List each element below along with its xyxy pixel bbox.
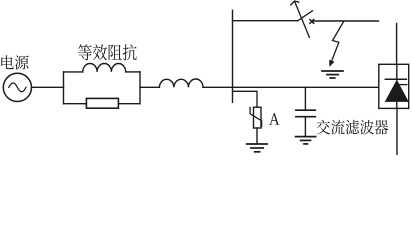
ground (arrester): [247, 144, 268, 152]
thyristor triangle: [385, 80, 409, 102]
AC source circle (电源): [3, 73, 31, 101]
main wire: inductor to converter box: [203, 86, 379, 88]
label: 交流滤波器 (AC filter): [316, 120, 388, 135]
top branch wire right: [126, 71, 140, 73]
lightning arrowhead: [329, 60, 334, 67]
arrester diagonal with tails: [250, 107, 262, 126]
arrester A body box: [254, 107, 262, 128]
lightning fault bolt: [332, 21, 345, 62]
wire: converter box bottom lead: [396, 108, 398, 155]
inductor L2 (series smoothing inductor): [159, 79, 203, 87]
label: A (arrester designator): [269, 113, 279, 124]
bus vertical line: [232, 10, 234, 102]
wire: capacitor to ground: [304, 117, 306, 136]
wire: arrester to ground: [256, 128, 258, 144]
AC source sine wave: [9, 83, 26, 92]
breaking arrow head: [291, 1, 299, 5]
capacitor C1 bottom plate: [296, 116, 315, 118]
top branch wire left: [64, 71, 83, 73]
wire: source to impedance block: [32, 86, 64, 88]
inductor L1 (top branch of equivalent impedance): [83, 64, 126, 72]
wire: triangle to box bottom: [396, 102, 398, 109]
wire: top branch down to converter box: [396, 24, 398, 65]
top branch wire (bus to disconnector): [233, 20, 298, 22]
bottom branch wire right: [118, 103, 140, 105]
breaking arrow shaft: [295, 2, 310, 38]
disconnector blade: [298, 11, 313, 21]
thyristor gate line: [400, 84, 407, 86]
equivalent impedance block left edge: [63, 72, 65, 104]
bottom branch wire left: [64, 103, 87, 105]
converter valve box: [379, 64, 409, 108]
capacitor C1 top plate: [296, 109, 315, 111]
wire: block to series inductor: [140, 86, 159, 88]
label: 等效阻抗 (equivalent impedance): [78, 44, 137, 60]
top branch wire (contact to right): [314, 20, 379, 22]
ground (capacitor): [296, 137, 316, 144]
resistor R1 (bottom branch of equivalent impedance): [86, 98, 118, 108]
thyristor cathode bar: [385, 78, 406, 80]
wire: main line down to capacitor: [304, 87, 306, 110]
thyristor lead inside box: [396, 64, 398, 80]
ground (lightning): [322, 71, 343, 78]
contact marker x: [310, 20, 314, 24]
arrester tap wire from bus: [233, 91, 258, 107]
equivalent impedance block right edge: [139, 72, 141, 104]
label: 电源 (power source): [1, 55, 28, 69]
